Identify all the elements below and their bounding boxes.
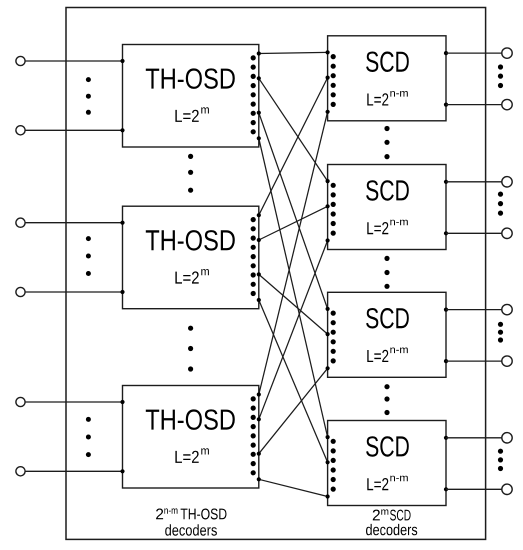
port dots column inside TH-OSD block 2 — [251, 217, 256, 296]
input terminal circle 5 — [16, 397, 25, 406]
wire from TH-OSD 2 port 1 to SCD 1 port 2 — [257, 76, 330, 218]
wire from TH-OSD 2 port 3 to SCD 3 port 2 — [257, 272, 330, 336]
output wire 7 from SCD block to terminal — [446, 437, 502, 439]
junction dot on SCD right edge for output 1 — [444, 51, 448, 55]
output terminal circle 1 — [502, 48, 512, 58]
junction dot on TH-OSD left edge for input 4 — [120, 290, 124, 294]
SCD decoder block 4 with label L=2^n-m — [328, 421, 446, 506]
SCD decoder block 2 with label L=2^n-m — [328, 165, 446, 250]
input wire 1 from terminal to TH-OSD block — [25, 60, 122, 62]
wire from TH-OSD 3 port 2 to SCD 2 port 3 — [257, 238, 330, 421]
TH-OSD decoder block 3 with label L=2^m — [123, 386, 259, 489]
input wire 3 from terminal to TH-OSD block — [25, 222, 122, 224]
junction dot on TH-OSD left edge for input 6 — [120, 469, 124, 473]
vertical ellipsis dots between input terminals group 2 — [86, 236, 91, 276]
vertical ellipsis dots between input terminals group 1 — [86, 77, 91, 115]
wire from TH-OSD 1 port 1 to SCD 1 port 1 — [257, 50, 330, 55]
output terminal circle 4 — [502, 228, 512, 238]
output wire 3 from SCD block to terminal — [446, 181, 502, 183]
junction dot on TH-OSD left edge for input 5 — [120, 400, 124, 404]
vertical ellipsis dots between output terminals group 1 — [498, 64, 503, 88]
junction dot on SCD right edge for output 2 — [444, 103, 448, 107]
TH-OSD decoder block 2 with label L=2^m — [123, 206, 259, 309]
caption 2^n-m TH-OSD decoders — [156, 508, 226, 535]
input terminal circle 1 — [16, 56, 25, 65]
vertical ellipsis dots between TH-OSD blocks 1 and 2 — [188, 154, 193, 193]
output terminal circle 2 — [502, 99, 512, 109]
port dots column inside TH-OSD block 1 — [251, 55, 256, 134]
output wire 2 from SCD block to terminal — [446, 104, 502, 106]
input wire 4 from terminal to TH-OSD block — [25, 291, 122, 293]
output terminal circle 6 — [502, 356, 512, 366]
wire from TH-OSD 3 port 4 to SCD 4 port 3 — [257, 477, 330, 498]
output wire 6 from SCD block to terminal — [446, 360, 502, 362]
output terminal circle 3 — [502, 177, 512, 187]
input wire 5 from terminal to TH-OSD block — [25, 401, 122, 403]
vertical ellipsis dots between input terminals group 3 — [86, 417, 91, 457]
output wire 5 from SCD block to terminal — [446, 309, 502, 311]
input terminal circle 6 — [16, 467, 25, 476]
junction dot on SCD right edge for output 4 — [444, 231, 448, 235]
vertical ellipsis dots between SCD blocks 1 and 2 — [384, 126, 389, 159]
output wire 8 from SCD block to terminal — [446, 488, 502, 490]
wire from TH-OSD 2 port 4 to SCD 4 port 2 — [257, 298, 330, 465]
vertical ellipsis dots between output terminals group 4 — [498, 449, 503, 472]
vertical ellipsis dots between SCD blocks 3 and 4 — [384, 384, 389, 415]
outer boundary box — [66, 8, 486, 540]
junction dot on TH-OSD left edge for input 3 — [120, 221, 124, 225]
input terminal circle 2 — [16, 126, 25, 135]
caption 2^m SCD decoders — [366, 509, 417, 535]
junction dot on SCD right edge for output 8 — [444, 487, 448, 491]
output terminal circle 5 — [502, 304, 512, 314]
input terminal circle 3 — [16, 218, 25, 227]
wire from TH-OSD 3 port 3 to SCD 3 port 3 — [257, 366, 330, 456]
SCD decoder block 1 with label L=2^n-m — [328, 36, 446, 121]
vertical ellipsis dots between SCD blocks 2 and 3 — [384, 256, 389, 289]
port dots column inside SCD block 2 — [331, 183, 336, 236]
input wire 6 from terminal to TH-OSD block — [25, 470, 122, 472]
input terminal circle 4 — [16, 287, 25, 296]
junction dot on SCD right edge for output 5 — [444, 308, 448, 312]
SCD decoder block 3 with label L=2^n-m — [328, 292, 446, 377]
wire from TH-OSD 3 port 1 to SCD 1 port 3 — [257, 110, 330, 397]
junction dot on TH-OSD left edge for input 2 — [120, 128, 124, 132]
port dots column inside TH-OSD block 3 — [251, 396, 256, 475]
port dots column inside SCD block 1 — [331, 54, 336, 107]
junction dot on SCD right edge for output 6 — [444, 359, 448, 363]
port dots column inside SCD block 3 — [331, 311, 336, 364]
output wire 4 from SCD block to terminal — [446, 232, 502, 234]
wire from TH-OSD 1 port 3 to SCD 3 port 1 — [257, 111, 330, 311]
wire from TH-OSD 1 port 4 to SCD 4 port 1 — [257, 136, 330, 439]
junction dot on TH-OSD left edge for input 1 — [120, 59, 124, 63]
wire from TH-OSD 2 port 2 to SCD 2 port 2 — [257, 204, 330, 242]
junction dot on SCD right edge for output 3 — [444, 180, 448, 184]
input wire 2 from terminal to TH-OSD block — [25, 129, 122, 131]
TH-OSD decoder block 1 with label L=2^m — [123, 45, 259, 148]
vertical ellipsis dots between output terminals group 3 — [498, 322, 503, 343]
output terminal circle 7 — [502, 433, 512, 443]
output wire 1 from SCD block to terminal — [446, 52, 502, 54]
junction dot on SCD right edge for output 7 — [444, 436, 448, 440]
output terminal circle 8 — [502, 484, 512, 494]
port dots column inside SCD block 4 — [331, 439, 336, 492]
wire from TH-OSD 1 port 2 to SCD 2 port 1 — [257, 76, 330, 183]
vertical ellipsis dots between output terminals group 2 — [498, 192, 503, 216]
vertical ellipsis dots between TH-OSD blocks 2 and 3 — [188, 326, 193, 372]
